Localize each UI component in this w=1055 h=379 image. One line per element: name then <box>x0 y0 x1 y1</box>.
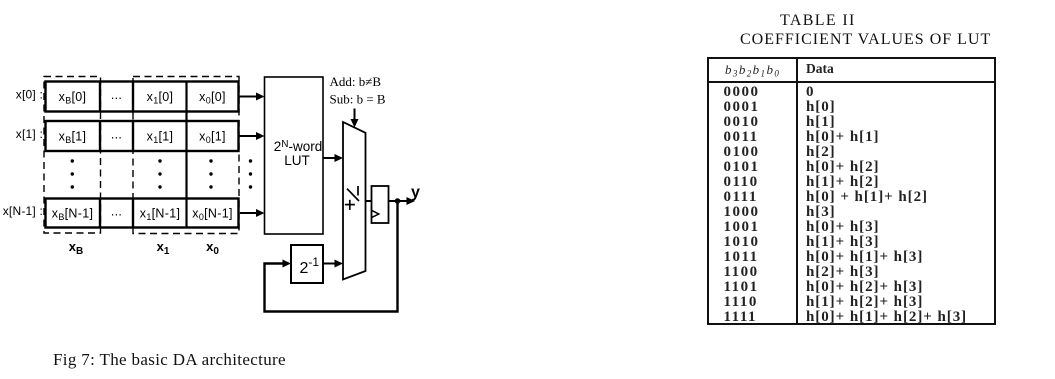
wire row1 to LUT <box>239 135 260 137</box>
svg-text:y: y <box>411 184 420 201</box>
svg-text:x[1] :: x[1] : <box>16 127 43 141</box>
shift register row x[N-1] <box>46 199 239 228</box>
wire register to y <box>389 200 411 202</box>
wire row0 to LUT <box>239 96 260 98</box>
wire scaler to adder <box>323 263 338 265</box>
vertical dots right of rows <box>249 159 252 188</box>
adder/subtractor <box>343 122 366 280</box>
column divider x1/x0 full height <box>185 82 187 228</box>
svg-text:x0[N-1]: x0[N-1] <box>192 207 232 223</box>
bit-column dashed box xB <box>44 77 101 234</box>
table title line 1 <box>780 12 856 30</box>
svg-text:2-1: 2-1 <box>300 255 320 277</box>
svg-text:x1[0]: x1[0] <box>147 90 174 106</box>
coefficient table <box>707 57 996 325</box>
adder plus-minus marks <box>345 186 359 210</box>
svg-text:x0[0]: x0[0] <box>199 90 226 106</box>
scaler block 2^-1 <box>291 245 323 283</box>
vertical dots column xB <box>71 159 74 188</box>
add/sub control arrow <box>354 109 356 123</box>
svg-text:x1[N-1]: x1[N-1] <box>140 207 180 223</box>
shift register row x[0] <box>46 82 239 112</box>
svg-text:x1[1]: x1[1] <box>147 130 174 146</box>
register <box>372 186 389 223</box>
svg-text:x1: x1 <box>157 239 170 257</box>
vertical dots column x1 <box>158 159 161 188</box>
svg-text:Sub: b = B: Sub: b = B <box>330 92 386 107</box>
shift register row x[1] <box>46 121 239 151</box>
svg-text:Add: b≠B: Add: b≠B <box>330 74 382 89</box>
svg-text:xB[N-1]: xB[N-1] <box>52 207 93 223</box>
svg-text:x[N-1] :: x[N-1] : <box>3 204 43 218</box>
svg-text:2N-word: 2N-word <box>274 139 323 154</box>
register clock mark <box>372 210 379 217</box>
wire adder to register <box>366 200 372 202</box>
bit-column dashed box x1..x0 <box>133 77 239 234</box>
feedback wire <box>265 201 398 312</box>
wire rowN1 to LUT <box>240 212 259 214</box>
svg-text:...: ... <box>111 205 122 219</box>
svg-text:LUT: LUT <box>284 153 310 168</box>
svg-text:x0: x0 <box>206 239 219 257</box>
svg-text:...: ... <box>111 128 122 142</box>
LUT block <box>265 77 324 234</box>
svg-text:...: ... <box>111 88 122 102</box>
figure caption <box>53 350 286 370</box>
svg-text:xB[0]: xB[0] <box>59 90 87 106</box>
vertical dots column x0 <box>209 159 212 188</box>
wire LUT to adder <box>323 157 338 159</box>
table title line 2 <box>740 31 991 49</box>
node junction <box>395 198 401 204</box>
svg-text:x0[1]: x0[1] <box>199 130 226 146</box>
svg-text:x[0] :: x[0] : <box>16 88 43 102</box>
svg-text:xB: xB <box>69 239 83 257</box>
svg-text:xB[1]: xB[1] <box>59 130 87 146</box>
